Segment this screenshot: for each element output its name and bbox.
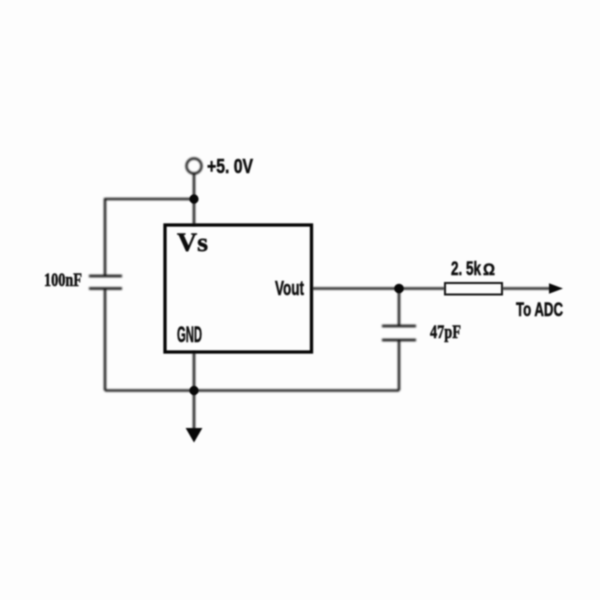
- wire resistor to ADC arrowhead: [502, 287, 552, 289]
- svg-text:To ADC: To ADC: [516, 300, 563, 321]
- svg-text:Vs: Vs: [177, 228, 208, 257]
- capacitor C2 47pF plates: [382, 325, 416, 328]
- resistor R1 body: [445, 283, 502, 295]
- svg-text:100nF: 100nF: [44, 270, 82, 291]
- wire Vout pin to resistor: [312, 287, 445, 289]
- svg-text:GND: GND: [177, 322, 202, 347]
- wire C2 bottom to ground rail: [398, 340, 400, 391]
- wire terminal to IC top pin: [193, 174, 195, 225]
- ground rail wire: [105, 389, 399, 391]
- svg-text:2. 5k: 2. 5k: [451, 259, 481, 280]
- ground arrow head: [186, 428, 203, 443]
- svg-text:Vout: Vout: [275, 278, 304, 300]
- wire rail to ground arrow: [193, 390, 195, 430]
- wire C1 bottom to ground rail: [104, 289, 106, 391]
- wire top junction to left: [105, 198, 194, 200]
- svg-text:47pF: 47pF: [430, 322, 461, 343]
- terminal +5V circle: [187, 159, 202, 174]
- wire left down to C1 top: [104, 198, 106, 276]
- node: ground rail junction dot: [189, 386, 198, 395]
- wire Vout junction down to C2: [398, 289, 400, 327]
- node: top junction dot: [189, 194, 198, 203]
- node: Vout junction dot: [394, 284, 404, 294]
- capacitor C1 100nF plates: [89, 275, 122, 278]
- svg-text:Ω: Ω: [483, 260, 495, 279]
- svg-text:+5. 0V: +5. 0V: [207, 156, 254, 178]
- IC box U1: [165, 225, 312, 352]
- wire GND pin down to rail: [193, 352, 195, 390]
- To-ADC arrow head: [549, 283, 563, 294]
